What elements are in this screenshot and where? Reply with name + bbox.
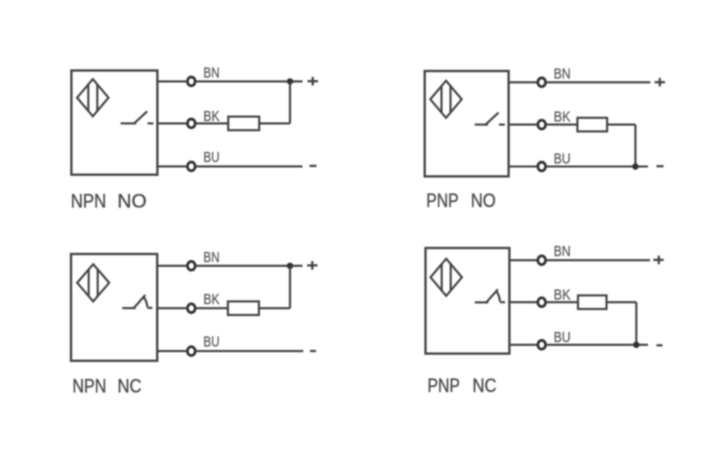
wire BU to - — [196, 350, 303, 352]
svg-text:BN: BN — [203, 249, 219, 266]
terminal BK — [538, 298, 546, 307]
- supply terminal — [657, 165, 664, 167]
svg-text:BN: BN — [554, 66, 571, 83]
wire node vertical (to BN junction) — [289, 81, 291, 123]
sensor symbol (diamond) U1 — [77, 79, 108, 116]
resistor R3 (load) — [228, 301, 259, 315]
terminal BN — [538, 78, 546, 87]
terminal BU — [187, 162, 195, 171]
wire resistor to node — [259, 122, 290, 124]
switch NC (inside U3) — [122, 295, 152, 308]
wire BN (U4 to terminal) — [509, 259, 536, 261]
wire BN to + — [547, 259, 650, 261]
+ supply terminal — [653, 256, 663, 265]
switch NC (inside U4) — [475, 289, 505, 302]
switch NO (inside U1) — [121, 111, 154, 123]
wire BU (U3 to terminal) — [157, 350, 186, 352]
wire BK (U3 to terminal) — [157, 307, 186, 309]
svg-text:NPN: NPN — [71, 191, 107, 212]
svg-text:NC: NC — [118, 376, 142, 397]
wire BN (U3 to terminal) — [157, 265, 186, 267]
wire BN to + — [196, 265, 302, 267]
wire BU (U2 to terminal) — [509, 165, 537, 167]
terminal BK — [187, 304, 195, 313]
wire BU to - — [547, 165, 648, 167]
sensor body U4 — [426, 248, 510, 354]
wire node vertical (to BN junction) — [289, 266, 291, 308]
sensor symbol (diamond) U2 — [430, 81, 461, 118]
- supply terminal — [310, 350, 316, 352]
wire BN to + — [196, 80, 302, 82]
terminal BK — [538, 120, 546, 129]
- supply terminal — [310, 165, 317, 167]
sensor symbol (diamond) U3 — [77, 264, 109, 301]
svg-text:BK: BK — [554, 286, 571, 303]
switch NO (inside U2) — [475, 113, 505, 125]
wire resistor to node — [607, 124, 635, 126]
junction node (BN / load) — [287, 78, 293, 84]
wire BU to - — [196, 165, 302, 167]
terminal BN — [187, 77, 195, 86]
wire node vertical (to BU junction) — [634, 125, 636, 167]
wire BU (U1 to terminal) — [157, 165, 186, 167]
svg-text:BU: BU — [554, 151, 571, 168]
junction node (BN / load) — [287, 263, 293, 269]
junction node (BU / load) — [632, 163, 638, 169]
svg-text:PNP: PNP — [426, 191, 458, 212]
terminal BU — [538, 340, 546, 349]
svg-text:BN: BN — [203, 65, 219, 82]
wire BK (U2 to terminal) — [509, 124, 537, 126]
terminal BU — [187, 347, 195, 356]
+ supply terminal — [307, 261, 317, 270]
wire node vertical (to BU junction) — [635, 302, 637, 345]
wire BK to resistor — [196, 122, 228, 124]
svg-text:BU: BU — [554, 329, 571, 346]
wire BK to resistor — [547, 301, 578, 303]
wire BK (U1 to terminal) — [157, 122, 186, 124]
resistor R4 (load) — [578, 295, 607, 309]
wire BK to resistor — [547, 124, 578, 126]
- supply terminal — [657, 344, 663, 346]
svg-text:BU: BU — [203, 334, 219, 351]
wire resistor to node — [607, 301, 637, 303]
svg-text:NO: NO — [117, 191, 146, 212]
svg-text:BK: BK — [554, 109, 571, 126]
wire BK (U4 to terminal) — [509, 301, 536, 303]
wire BN (U2 to terminal) — [509, 81, 537, 83]
sensor body U1 — [71, 71, 157, 175]
wire resistor to node — [259, 307, 290, 309]
svg-text:PNP: PNP — [428, 376, 460, 397]
wire BN to + — [547, 81, 651, 83]
terminal BK — [187, 119, 195, 128]
junction node (BU / load) — [633, 342, 639, 348]
svg-text:NPN: NPN — [72, 376, 106, 397]
+ supply terminal — [655, 78, 665, 87]
svg-text:BK: BK — [203, 291, 219, 308]
wire BU (U4 to terminal) — [509, 344, 536, 346]
svg-text:BU: BU — [203, 149, 219, 166]
sensor body U3 — [71, 254, 157, 361]
terminal BU — [538, 162, 546, 171]
wire BN (U1 to terminal) — [157, 80, 186, 82]
sensor body U2 — [425, 71, 509, 176]
resistor R1 (load) — [228, 117, 259, 131]
sensor symbol (diamond) U4 — [431, 259, 462, 296]
svg-text:NC: NC — [473, 376, 497, 397]
resistor R2 (load) — [577, 118, 607, 132]
+ supply terminal — [308, 77, 319, 86]
svg-text:NO: NO — [471, 191, 496, 212]
wire BK to resistor — [196, 307, 228, 309]
terminal BN — [187, 261, 195, 270]
wire BU to - — [547, 344, 648, 346]
terminal BN — [538, 256, 546, 265]
svg-text:BN: BN — [554, 243, 571, 260]
